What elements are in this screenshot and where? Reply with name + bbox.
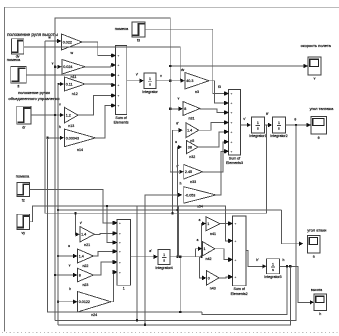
svg-text:угол тангажа: угол тангажа — [310, 106, 334, 111]
svg-text:h: h — [283, 258, 285, 262]
svg-text:n23: n23 — [82, 283, 88, 287]
svg-text:помеха: помеха — [115, 26, 129, 31]
wire: gain n13 output to Sum1 input5 — [78, 93, 115, 115]
svg-text:s: s — [257, 127, 259, 131]
svg-text:f3: f3 — [137, 39, 140, 43]
svg-text:+: + — [119, 250, 121, 254]
svg-text:1.4: 1.4 — [187, 129, 192, 133]
annotation: polozhenie ruchki obyedinennogo upravleniya — [8, 90, 59, 101]
wire: second h riser — [136, 206, 138, 321]
svg-text:+: + — [118, 83, 120, 87]
wire: v stub to gain n11 — [52, 62, 62, 70]
svg-text:h': h' — [256, 258, 259, 262]
svg-text:dv: dv — [181, 68, 185, 72]
gain n23 (8) — [78, 268, 94, 287]
svg-text:1: 1 — [149, 77, 151, 81]
wire: v stub to gain n31 — [169, 81, 183, 172]
gain n3 (40.3) — [185, 73, 209, 95]
sum block Sum of Elements3 — [225, 90, 243, 166]
wire: gain n41 output to Sum2 input1 — [220, 221, 232, 225]
svg-text:n3: n3 — [195, 90, 199, 94]
svg-text:Integrator: Integrator — [142, 90, 158, 94]
svg-text:θ: θ — [294, 117, 296, 121]
svg-text:+: + — [119, 270, 121, 274]
svg-text:h: h — [69, 287, 71, 291]
svg-text:n33: n33 — [190, 180, 196, 184]
gain n43 (0) — [207, 271, 220, 291]
wire: gain n11 output to Sum1 input2 — [85, 63, 115, 67]
svg-text:+: + — [231, 121, 233, 125]
source block f2 (noise step) — [17, 183, 30, 203]
gain n22 (1.4) — [78, 249, 94, 268]
svg-text:h: h — [59, 125, 61, 129]
svg-text:v': v' — [136, 73, 139, 77]
svg-text:n24: n24 — [91, 313, 97, 317]
source block vy (step) — [17, 214, 30, 235]
svg-text:n31: n31 — [189, 117, 195, 121]
gain n33 (2.45) — [184, 165, 203, 185]
svg-text:Integrator2: Integrator2 — [270, 134, 287, 138]
svg-text:помеха: помеха — [16, 174, 30, 179]
svg-text:θ': θ' — [266, 112, 269, 116]
wire: gain n22 output to bottom sum input4 — [93, 249, 116, 256]
svg-text:n13: n13 — [68, 124, 74, 128]
wire: gain n21 output to bottom sum input2 — [94, 231, 116, 235]
wire: bottom sum output to Integrator4 — [130, 249, 158, 259]
wire: riser to gain n42 — [196, 238, 203, 257]
wire: theta feedback down-left — [55, 125, 296, 320]
wire: drop to gain n43 — [200, 257, 207, 280]
svg-text:Elements3: Elements3 — [226, 161, 243, 165]
svg-text:dv: dv — [16, 55, 20, 59]
svg-text:w: w — [70, 51, 73, 55]
source block f3 (noise step) — [132, 22, 145, 43]
svg-text:Sum of: Sum of — [233, 287, 244, 291]
scope altitude scope — [314, 294, 327, 316]
gain n11 (0.024) — [62, 60, 85, 80]
svg-text:угол атаки: угол атаки — [307, 228, 326, 233]
wire: Sum3 output to Integrator1 — [241, 117, 252, 127]
svg-text:+: + — [118, 94, 120, 98]
gain n31 (8) — [183, 102, 200, 121]
svg-text:n41: n41 — [210, 232, 216, 236]
wire: theta-rate drop to gain n21 — [74, 212, 82, 236]
svg-text:скорость полета: скорость полета — [301, 43, 332, 48]
svg-text:0: 0 — [208, 276, 210, 280]
svg-text:1: 1 — [204, 247, 206, 251]
integrator Integrator4 — [155, 249, 172, 269]
gain n41 (1) — [206, 217, 220, 236]
wire: riser to gain n41 — [199, 218, 206, 258]
wire: Integrator3 output to altitude drop — [280, 258, 315, 305]
svg-text:s: s — [149, 82, 151, 86]
svg-text:38: 38 — [188, 146, 192, 150]
source block fi (noise step) — [11, 66, 27, 88]
svg-text:a: a — [313, 255, 315, 259]
wire: gain n34 output to Sum3 input7 — [216, 149, 228, 195]
wire: w stub to gain w — [45, 36, 62, 44]
gain n32 (38) — [187, 141, 198, 159]
wire: gain n42 output to Sum2 input3 — [215, 249, 233, 262]
svg-text:s: s — [272, 268, 274, 272]
svg-text:+: + — [235, 222, 237, 226]
gain n24 (0.0122) — [78, 292, 111, 318]
integrator Integrator — [142, 73, 158, 94]
wire: gain n31 output to Sum3 input3 — [200, 109, 228, 115]
gain w (0.022) — [62, 34, 83, 55]
dotted page boundary — [2, 332, 339, 334]
svg-text:n12: n12 — [72, 92, 78, 96]
wire: gain w output to Sum1 input1 — [82, 42, 115, 58]
svg-text:+: + — [119, 241, 121, 245]
svg-text:+: + — [235, 258, 237, 262]
wire: vy source riser — [30, 205, 179, 257]
source block dv (elevator step) — [12, 39, 24, 59]
svg-text:+: + — [231, 130, 233, 134]
svg-text:n42: n42 — [206, 257, 212, 261]
svg-text:v: v — [160, 74, 162, 78]
wire: gain n14 output to Sum1 input6 — [96, 103, 116, 138]
svg-text:+: + — [119, 260, 121, 264]
svg-text:-0.053: -0.053 — [185, 193, 195, 197]
wire: fi source to Sum1 input3 — [26, 73, 115, 77]
svg-text:fi: fi — [18, 85, 20, 89]
wire: vy line to Sum2 input2 — [178, 206, 232, 243]
wire: h riser to gain n34 — [144, 182, 182, 326]
svg-text:h: h — [180, 182, 182, 186]
svg-text:0.0122: 0.0122 — [79, 300, 90, 304]
wire: gain n33 output to Sum3 input6 — [203, 140, 229, 172]
svg-text:+: + — [235, 239, 237, 243]
svg-text:1.4: 1.4 — [79, 254, 84, 258]
wire: alpha feedback line — [57, 209, 303, 246]
gain n14 (0.00043) — [65, 129, 96, 152]
wire: Integrator output to junction — [156, 74, 181, 81]
wire: f3 noise to Sum3 input1 — [145, 29, 228, 96]
svg-text:0.022: 0.022 — [63, 40, 72, 44]
wire: dr source to gain n13 — [31, 102, 64, 117]
svg-text:n21: n21 — [84, 243, 90, 247]
svg-text:Elements: Elements — [114, 121, 129, 125]
svg-text:+: + — [118, 104, 120, 108]
svg-text:vy: vy — [21, 231, 25, 235]
integrator Integrator3 — [264, 259, 281, 279]
svg-text:a: a — [175, 140, 177, 144]
wire: theta-rate feedback (down-left) — [45, 41, 267, 213]
svg-text:v: v — [314, 77, 316, 81]
svg-text:+: + — [119, 232, 121, 236]
svg-text:a: a — [199, 218, 201, 222]
svg-text:+: + — [118, 63, 120, 67]
wire: lower right loop — [202, 265, 288, 314]
wire: dv source to gain n3 (elevator) — [24, 47, 185, 83]
svg-text:v': v' — [80, 221, 83, 225]
wire: v feedback top loop — [55, 18, 171, 321]
wire: gain n3 output to Sum3 input2 — [209, 81, 228, 106]
svg-text:1: 1 — [207, 222, 209, 226]
svg-text:1: 1 — [257, 121, 259, 125]
wire: f2 noise to bottom sum input1 — [30, 190, 117, 226]
svg-text:+: + — [118, 73, 120, 77]
sum block Sum of Elements2 — [229, 216, 248, 296]
gain n34 (-0.053) — [184, 187, 216, 209]
scope speed scope — [308, 57, 321, 81]
svg-text:+: + — [231, 140, 233, 144]
svg-text:f2: f2 — [22, 198, 25, 202]
integrator Integrator2 — [270, 117, 287, 138]
gain n5 (1.4) — [186, 123, 199, 143]
svg-text:+: + — [235, 275, 237, 279]
wire: gain n5 output to Sum3 input4 — [199, 120, 229, 130]
scope pitch scope — [311, 116, 326, 140]
svg-text:a: a — [68, 244, 70, 248]
svg-text:a: a — [197, 238, 199, 242]
svg-text:Sum of: Sum of — [115, 116, 126, 120]
svg-text:θ': θ' — [176, 122, 179, 126]
svg-text:объединенного управления: объединенного управления — [8, 96, 59, 101]
wire: lower feedback line to n14 — [48, 138, 203, 313]
svg-text:Sum of: Sum of — [229, 156, 240, 160]
svg-text:+: + — [231, 92, 233, 96]
svg-text:2.45: 2.45 — [185, 170, 192, 174]
svg-text:+: + — [118, 54, 120, 58]
svg-text:40.3: 40.3 — [186, 79, 193, 83]
svg-text:Elements2: Elements2 — [231, 292, 248, 296]
wire: Integrator2 to pitch scope — [286, 117, 311, 127]
svg-text:1.2: 1.2 — [66, 114, 71, 118]
svg-text:n22: n22 — [82, 264, 88, 268]
svg-text:θ: θ — [318, 136, 320, 140]
gain n12 (0.11) — [65, 77, 86, 96]
wire: alpha stub to gain n22 — [57, 244, 78, 258]
svg-text:1: 1 — [278, 121, 280, 125]
svg-text:8: 8 — [79, 273, 81, 277]
svg-text:n5: n5 — [190, 139, 194, 143]
wire: Sum1 output to Integrator — [127, 73, 144, 83]
svg-text:высота: высота — [311, 288, 322, 292]
svg-text:Integrator1: Integrator1 — [249, 134, 266, 138]
svg-text:0.11: 0.11 — [66, 82, 73, 86]
wire: h stub to gain n24 — [57, 287, 78, 304]
wire: h stub to gain n14 — [47, 125, 65, 140]
svg-text:v: v — [178, 97, 180, 101]
svg-text:s: s — [163, 259, 165, 263]
wire: gain n23 output to bottom sum input5 — [93, 260, 116, 275]
svg-text:+: + — [231, 101, 233, 105]
svg-text:n14: n14 — [77, 148, 83, 152]
svg-text:s: s — [278, 127, 280, 131]
svg-text:0.00043: 0.00043 — [66, 136, 79, 140]
wire: gain n24 output to bottom sum input6 — [111, 270, 117, 302]
wire: Integrator1 to Integrator2 — [265, 112, 273, 127]
svg-text:Integrator3: Integrator3 — [264, 275, 281, 279]
wire: alpha riser from Integrator4 — [175, 140, 182, 258]
scope alpha scope — [308, 235, 321, 258]
svg-text:+: + — [119, 221, 121, 225]
svg-text:f3: f3 — [218, 85, 221, 89]
svg-text:Integrator4: Integrator4 — [155, 266, 172, 270]
wire: v to speed scope — [169, 64, 308, 68]
wire: v stub to gain n33 — [170, 165, 183, 175]
wire: v stub to gain n23 — [54, 264, 78, 278]
gain n42 (1) — [202, 242, 215, 262]
gain n21 (1.4) — [80, 227, 94, 248]
sum block Sum of Elements — [112, 46, 129, 125]
svg-text:h: h — [319, 312, 321, 316]
wire: theta-rate riser to gain n5 — [171, 122, 183, 215]
wire: h feedback down-left — [58, 84, 290, 325]
svg-text:n43: n43 — [210, 286, 216, 290]
wire: gain n12 output to Sum1 input4 — [85, 83, 115, 87]
wire: gain n43 output to Sum2 input4 — [219, 275, 232, 279]
integrator Integrator1 — [249, 117, 266, 138]
svg-text:1: 1 — [123, 287, 125, 291]
source block dr (stick step) — [17, 106, 31, 129]
gain n13 (1.2) — [65, 107, 79, 128]
sum block Sum 1 — [113, 219, 130, 290]
svg-text:a': a' — [149, 249, 152, 253]
svg-text:1: 1 — [272, 262, 274, 266]
svg-text:1.4: 1.4 — [81, 233, 86, 237]
svg-text:0.024: 0.024 — [63, 65, 72, 69]
wire: gain n32 output to Sum3 input5 — [198, 130, 228, 148]
svg-text:+: + — [231, 150, 233, 154]
svg-text:v': v' — [243, 117, 246, 121]
svg-text:+: + — [231, 111, 233, 115]
svg-text:8: 8 — [184, 107, 186, 111]
svg-text:n11: n11 — [71, 75, 77, 79]
wire: a stub to gain n12 — [57, 82, 64, 86]
svg-text:n32: n32 — [189, 155, 195, 159]
wire: Sum2 output to Integrator3 — [246, 251, 267, 269]
wire: Integrator4 output line — [170, 256, 201, 258]
svg-text:1: 1 — [163, 253, 165, 257]
